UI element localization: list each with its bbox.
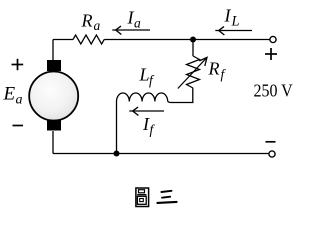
label If [142,114,156,137]
svg-text:a: a [16,93,23,108]
junction node top [190,37,196,43]
wire bottom rail [53,153,269,155]
label Ra [81,11,101,34]
motor armature Ea (circle) [29,72,78,121]
terminal + (top right open circle) [270,36,276,42]
label Rf [208,59,227,82]
minus sign left [13,125,24,127]
caption 三 (three) drawn glyph [157,191,176,203]
label Ea [3,84,23,108]
rheostat Rf zigzag [187,56,200,88]
label Lf [139,65,156,88]
terminal - (bottom right open circle) [269,151,275,157]
wire bottom-left vertical from motor to bottom rail [52,131,54,154]
svg-text:250 V: 250 V [254,81,293,101]
svg-text:L: L [139,65,150,85]
plus sign right [265,48,277,60]
current arrow IL [215,27,252,35]
wire top-left vertical from motor to top rail [52,40,54,61]
svg-text:E: E [3,84,16,105]
minus sign right [266,141,276,143]
wire from coil to rheostat bottom [168,88,193,103]
svg-text:L: L [231,14,240,30]
wire from top junction down to rheostat [192,40,194,57]
wire top rail left segment [53,39,73,41]
plus sign left [12,59,24,70]
svg-text:a: a [134,16,141,31]
caption 圖 (figure) drawn glyph [136,188,149,207]
label Ia [127,8,142,31]
motor brush top [47,60,61,71]
current arrow Ia [112,26,150,34]
svg-text:a: a [94,18,101,33]
inductor Lf coil [116,93,167,102]
motor brush bottom [47,121,61,131]
resistor Ra zigzag [73,35,104,44]
wire field branch vertical up from bottom junction [116,102,118,154]
wire top rail middle segment [104,39,193,41]
rheostat Rf diagonal arrow [178,57,207,88]
junction node bottom [114,151,120,157]
svg-text:R: R [208,59,220,79]
current arrow If [129,107,164,115]
svg-text:I: I [224,6,232,26]
wire top rail right segment [193,39,270,41]
label IL [224,6,240,30]
svg-text:R: R [81,11,93,31]
